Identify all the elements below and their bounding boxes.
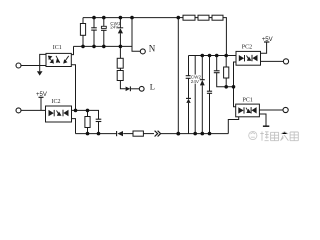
diode D to L [126,87,131,92]
terminal PC1 output [283,107,288,112]
resistor chain top right R-R-R [183,15,195,20]
wire N column [132,18,140,52]
wire lower-left bus [74,45,133,47]
diode on col 188.5 [186,97,191,99]
svg-text:IC1: IC1 [53,45,62,51]
wire top bus [83,17,178,19]
power bar +5V PC2 [264,41,269,43]
resistor R lower in L branch [117,71,123,81]
wire IC2 emitter to bottom bus [72,119,76,134]
capacitor on col 209.5 [207,91,212,93]
wire PC1 output [259,109,283,111]
terminal N [140,49,145,54]
node dots IC2 collector wire [74,109,90,113]
wire right mid bus [189,55,237,57]
wire IC1 cathode to ground [40,54,46,71]
wire IC2 input [21,109,46,111]
capacitor C2 electrolytic [101,26,106,28]
wire IC1 collector riser [71,46,73,54]
capacitor on col 216.7 [214,71,220,73]
terminal IC2 input [16,108,21,113]
zener CW1 [118,27,124,29]
watermark text [260,132,298,141]
resistor R top-left [80,24,85,36]
svg-text:N: N [149,43,156,53]
wire +5V to IC2 [40,97,42,110]
capacitor C1 [91,28,97,30]
svg-text:IC2: IC2 [52,99,61,105]
opto IC1 [46,53,71,66]
wire IC2 collector [72,110,99,119]
node dots top bus [92,16,180,20]
node dots right mid bus [201,54,229,58]
resistor R upper in L branch [117,58,123,68]
svg-text:24V: 24V [110,25,119,30]
zener CW2 [200,79,205,81]
terminal PC2 output [283,59,288,64]
label CW2 [191,75,200,84]
resistor on col 226.2 [224,67,229,78]
wire IC1 input [21,65,46,67]
power bar +5V IC2 [39,96,44,98]
wire cap C1 column [93,18,95,28]
connector chevrons on bottom bus [155,131,161,137]
capacitor under IC2 [96,119,102,121]
node dots bottom bus [86,132,212,136]
resistor on bottom bus [133,131,143,136]
terminal L [139,86,144,91]
node dots cross wire y87 [224,85,235,89]
opto PC1 [236,104,260,117]
ground IC1 [37,71,43,75]
wire bottom bus to PC1 lower pin [228,117,238,134]
wire PC1 emitter to ground [259,114,266,126]
opto PC2 [236,51,261,65]
wire R column under IC2 [87,110,89,116]
watermark logo [249,131,257,139]
wire column cap mid [209,56,211,92]
svg-text:PC1: PC1 [243,98,253,104]
wire bottom bus [76,133,117,135]
wire IC1 emitter column [71,65,75,111]
wire zener CW1 column [119,18,121,28]
wire column cap right to cross wire [216,56,218,71]
capacitor on col 188.5 [186,76,192,79]
wire column cap+diode [188,56,190,76]
wire PC2 input lower to PC1 [234,62,237,107]
wire PC2 +5V riser [261,42,267,53]
wire column zener CW2 [201,56,203,80]
wire PC2 output [261,60,284,62]
node dots lower-left bus [81,45,122,49]
diode on bottom bus [117,131,123,136]
svg-text:24V: 24V [191,79,200,84]
wire left column to R1 [82,18,84,24]
svg-text:L: L [150,81,155,91]
svg-text:PC2: PC2 [242,44,252,50]
wire column behind CW2 label [194,56,196,134]
wire L branch column [119,46,121,58]
wire center long column [177,18,179,134]
wire cap C2 column [103,18,105,27]
ground PC1 [263,125,269,127]
opto IC2 [46,106,72,122]
terminal IC1 input [16,63,21,68]
wire column resistor right [225,56,227,68]
resistor under IC2 [85,117,90,128]
